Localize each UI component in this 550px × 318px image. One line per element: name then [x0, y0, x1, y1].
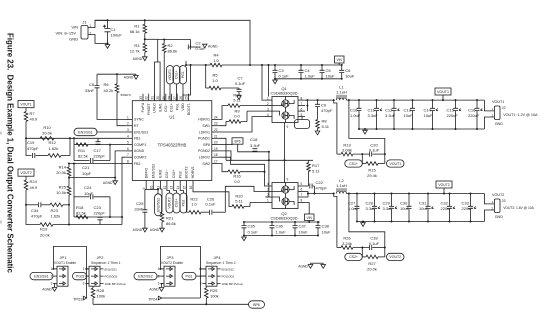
- capacitor C37 10uF: [294, 222, 296, 226]
- svg-text:470pF: 470pF: [316, 186, 328, 191]
- svg-text:VIN: VIN: [307, 216, 313, 220]
- wire gnd to J3 pin2: [484, 210, 494, 222]
- junction C28 bottom: [374, 221, 376, 223]
- wire sense tap left ch2: [334, 194, 337, 248]
- resistor R17 5.11: [307, 163, 311, 172]
- svg-text:0.1uF: 0.1uF: [205, 202, 216, 207]
- junction comp2 node: [109, 216, 111, 218]
- VOUT1 net oval: [387, 160, 405, 167]
- svg-text:5.11: 5.11: [312, 168, 320, 173]
- svg-text:1.0uF: 1.0uF: [348, 206, 359, 211]
- PG2 net oval: [73, 272, 87, 279]
- power block Q2 CSD86330Q3D: [272, 183, 298, 209]
- svg-text:3: 3: [127, 128, 129, 132]
- junction C5 top: [321, 64, 323, 66]
- junction C15 top: [455, 99, 457, 101]
- svg-text:100k BP Pull-up: 100k BP Pull-up: [222, 282, 244, 286]
- junction C32 bottom: [449, 221, 451, 223]
- svg-text:CS2−: CS2−: [165, 169, 169, 178]
- svg-text:4: 4: [267, 182, 269, 186]
- svg-text:VOUT2: VOUT2: [438, 183, 449, 187]
- junction R5 tap: [205, 64, 207, 66]
- U1 pin 23 SW1: [212, 125, 219, 127]
- svg-text:220pF: 220pF: [94, 154, 106, 159]
- junction C29 top: [391, 193, 393, 195]
- AGND end of sync rail: [135, 74, 137, 75]
- Q2 pin 6 stub: [298, 191, 305, 193]
- junction C20 right: [384, 153, 386, 155]
- wire SW1: [219, 122, 229, 126]
- svg-text:5: 5: [301, 113, 303, 117]
- ground VOUT2 caps: [361, 223, 366, 227]
- junction q2 vin: [308, 221, 310, 223]
- VOUT1 net box: [435, 88, 451, 95]
- Q2 pin 2 stub: [266, 196, 273, 198]
- svg-text:R4: R4: [213, 53, 219, 58]
- wire ch2 loop left: [73, 164, 75, 218]
- resistor R7 49.9: [25, 108, 27, 112]
- svg-text:TP23: TP23: [73, 296, 83, 301]
- U1 pin 16 HDRV2: [192, 181, 194, 188]
- wire Q2 pins 6/7 tie: [305, 192, 308, 198]
- svg-text:EN1/SS1: EN1/SS1: [105, 267, 118, 271]
- resistor R22 1.0: [187, 211, 190, 213]
- svg-text:5.11: 5.11: [235, 199, 243, 204]
- wire Q2 pin8 to VIN box: [305, 203, 309, 215]
- svg-text:R21: R21: [166, 216, 174, 221]
- svg-text:PG2: PG2: [182, 199, 186, 206]
- AGND below C25: [143, 228, 148, 232]
- svg-text:C13: C13: [404, 108, 412, 113]
- resistor R4 1.0: [186, 64, 210, 66]
- EN1/SS1 net oval: [74, 128, 97, 136]
- junction Q1 pin7 sw: [306, 105, 308, 107]
- junction R12 top: [69, 137, 71, 139]
- svg-text:1: 1: [267, 199, 269, 203]
- svg-text:C3: C3: [279, 68, 285, 73]
- wire VOUT2 gnd rail: [357, 221, 484, 223]
- svg-text:FB2: FB2: [134, 162, 140, 166]
- wire Q1 pin9 to pgnd rail: [284, 129, 286, 160]
- capacitor C29 3.3uF: [391, 194, 393, 207]
- wire VOUT2 box stub: [443, 188, 445, 194]
- junction C9 tap: [317, 99, 319, 101]
- capacitor C31 10uF: [427, 194, 429, 207]
- svg-text:R5: R5: [212, 73, 218, 78]
- svg-text:JP1: JP1: [60, 255, 68, 260]
- inductor L1 1.1uH: [336, 98, 346, 100]
- capacitor C13 10uF: [412, 100, 414, 108]
- wire Q2 pin5 to snubber: [305, 185, 309, 187]
- svg-text:COMP2: COMP2: [134, 156, 147, 160]
- AGND mid symbol: [310, 263, 312, 264]
- svg-text:100uF: 100uF: [111, 33, 123, 38]
- junction C10 top: [358, 99, 360, 101]
- svg-text:220uF: 220uF: [462, 206, 474, 211]
- svg-text:R2: R2: [168, 43, 174, 48]
- junction C36 top: [271, 221, 273, 223]
- svg-text:ILIM1: ILIM1: [158, 103, 162, 112]
- capacitor C27 1.0uF: [356, 194, 358, 207]
- svg-text:3: 3: [158, 282, 160, 286]
- junction C1 bottom: [107, 42, 109, 44]
- svg-text:470pF: 470pF: [27, 146, 39, 151]
- U1 pin 26 VDD: [182, 94, 184, 101]
- junction Q1 vin tap 2: [268, 64, 270, 66]
- AGND below R3: [143, 57, 148, 61]
- svg-text:68.1k: 68.1k: [130, 29, 140, 34]
- wire VIN box stub: [338, 63, 340, 65]
- svg-text:30: 30: [156, 96, 160, 100]
- VOUT2 feedback net box: [18, 169, 34, 176]
- U1 pin 4 FB1: [125, 137, 132, 139]
- svg-text:10: 10: [149, 186, 153, 190]
- wire VOUT1 box stub: [442, 95, 444, 100]
- svg-text:1.0: 1.0: [191, 202, 197, 207]
- svg-text:1: 1: [158, 267, 160, 271]
- svg-text:5.11: 5.11: [322, 124, 330, 129]
- svg-text:CS1+: CS1+: [349, 162, 358, 166]
- svg-text:C4: C4: [305, 68, 311, 73]
- wire J1 pin2 to GND: [88, 35, 108, 44]
- Q1 pin 2 stub: [266, 105, 273, 107]
- svg-text:BP6: BP6: [234, 140, 240, 144]
- svg-text:33: 33: [139, 96, 143, 100]
- svg-text:CS1+: CS1+: [175, 70, 179, 79]
- svg-text:C21: C21: [82, 165, 90, 170]
- wire gnd to J2 pin2: [484, 117, 494, 129]
- wire PG1 oval to JP4 pin2: [196, 275, 206, 277]
- wire BOOT2 down: [186, 188, 188, 213]
- svg-text:10uF: 10uF: [299, 229, 309, 234]
- capacitor C23 220pF: [98, 217, 103, 219]
- wire R2 top rail: [158, 39, 191, 41]
- svg-text:R29: R29: [210, 288, 218, 293]
- resistor R15 29.4k: [366, 162, 378, 166]
- resistor R2 86.6k: [163, 40, 165, 44]
- wire to VOUT2 oval: [167, 188, 170, 194]
- svg-text:PGND2: PGND2: [198, 149, 210, 153]
- svg-text:5: 5: [301, 182, 303, 186]
- svg-text:3: 3: [51, 282, 53, 286]
- svg-text:C10: C10: [350, 108, 358, 113]
- capacitor C34 470pF: [39, 202, 41, 207]
- svg-text:VIN: VIN: [71, 25, 78, 30]
- wire SW2 rail: [308, 193, 334, 195]
- wire stub R4 left: [185, 61, 187, 65]
- Q1 pin 8 stub: [298, 99, 305, 101]
- wire EN1/SS1 oval to JP1 pin2: [52, 275, 54, 277]
- wire to CS2+ oval: [174, 188, 177, 194]
- svg-text:LDRV1: LDRV1: [199, 130, 210, 134]
- Q1 pin 4 stub: [266, 116, 273, 118]
- Q2 pin 4 stub: [266, 185, 273, 187]
- svg-text:3.24k: 3.24k: [342, 241, 352, 246]
- svg-text:3.09k: 3.09k: [342, 148, 352, 153]
- jumper JP3: [164, 266, 175, 286]
- svg-text:25: 25: [185, 96, 189, 100]
- junction C12 bottom: [393, 128, 395, 130]
- svg-text:J3: J3: [502, 199, 506, 203]
- wire Q1 pins 6/7 tie: [306, 100, 308, 111]
- svg-text:220uF: 220uF: [468, 113, 480, 118]
- PG2 net oval vertical: [180, 193, 187, 213]
- capacitor C38 10uF: [317, 222, 319, 226]
- svg-text:33nF: 33nF: [134, 206, 144, 211]
- svg-text:COMP1: COMP1: [134, 143, 147, 147]
- junction R1 top: [144, 19, 146, 21]
- wire J1 pin1 to VIN rail: [88, 20, 108, 27]
- ground bypass row 1: [273, 80, 278, 84]
- svg-text:AGND: AGND: [124, 75, 134, 79]
- junction C13 top: [412, 99, 414, 101]
- svg-text:0.1uF: 0.1uF: [369, 241, 380, 246]
- svg-text:C28: C28: [366, 201, 374, 206]
- svg-text:C29: C29: [383, 201, 391, 206]
- Q2 pin 1 stub: [266, 202, 273, 204]
- svg-text:Figure 23. Design Example 1,: Figure 23. Design Example 1, Dual Output…: [6, 33, 15, 273]
- junction C3 bottom: [274, 78, 276, 80]
- svg-text:C34: C34: [31, 208, 39, 213]
- svg-text:SYNC: SYNC: [134, 118, 144, 122]
- U1 pin 30 ILIM1: [159, 94, 161, 101]
- svg-text:3.3uF: 3.3uF: [385, 113, 396, 118]
- junction L1 right: [348, 99, 350, 101]
- capacitor C19 470pF: [33, 153, 35, 158]
- ground below C7: [237, 96, 242, 100]
- junction L1 left: [333, 99, 335, 101]
- svg-text:1: 1: [51, 267, 53, 271]
- svg-text:500kHz: 500kHz: [121, 93, 132, 97]
- VOUT2 sense net oval: [387, 253, 405, 260]
- wire to J2 pin1: [484, 100, 494, 111]
- svg-text:1.62k: 1.62k: [49, 146, 59, 151]
- svg-text:C5: C5: [326, 68, 332, 73]
- svg-text:6: 6: [301, 107, 303, 111]
- junction C37 top: [294, 221, 296, 223]
- capacitor C15 220uF: [455, 100, 457, 108]
- svg-text:PG1: PG1: [185, 274, 192, 278]
- svg-text:3.3uF: 3.3uF: [366, 206, 377, 211]
- resistor R30 5.11: [228, 104, 240, 108]
- svg-text:29: 29: [162, 96, 166, 100]
- svg-text:15: 15: [183, 186, 187, 190]
- wire VOUT1 oval to pin: [169, 84, 171, 101]
- junction C3 top: [274, 64, 276, 66]
- resistor R5 1.0: [206, 87, 209, 89]
- svg-text:3.3uF: 3.3uF: [368, 113, 379, 118]
- wire C1 to ground: [107, 43, 109, 44]
- resistor R20 5.11: [232, 205, 244, 209]
- wire comp loop inner: [74, 144, 110, 146]
- VOUT1 feedback net box: [18, 101, 34, 108]
- svg-text:R14: R14: [59, 165, 67, 170]
- U1 pin 9 DIFFO: [145, 181, 147, 188]
- page marker dot 1: [0, 132, 2, 135]
- svg-text:HDRV2: HDRV2: [191, 166, 195, 178]
- svg-text:20.0k: 20.0k: [40, 232, 50, 237]
- Q2 pin 7 stub: [298, 196, 305, 198]
- resistor R16 0.0: [228, 170, 240, 174]
- wire R17 top: [308, 160, 310, 162]
- junction R25 mid tap: [68, 204, 70, 206]
- svg-text:7: 7: [127, 153, 129, 157]
- junction C18 return: [268, 151, 270, 153]
- svg-text:14: 14: [176, 186, 180, 190]
- svg-text:86.6k: 86.6k: [168, 48, 178, 53]
- svg-text:C33: C33: [462, 201, 470, 206]
- svg-text:1.1uH: 1.1uH: [336, 183, 347, 188]
- svg-text:PGOOD1: PGOOD1: [222, 275, 235, 279]
- svg-text:AGND: AGND: [298, 265, 308, 269]
- svg-text:220uF: 220uF: [447, 113, 459, 118]
- U1 pin 25 BOOT1: [188, 94, 190, 101]
- wire to Q2 pin4: [265, 172, 266, 186]
- svg-text:C24: C24: [84, 185, 92, 190]
- svg-text:3.3uF: 3.3uF: [250, 143, 261, 148]
- CS2+ net oval: [345, 253, 363, 260]
- wire loop to JP4 pin1 stub: [200, 268, 206, 270]
- svg-text:220uF: 220uF: [441, 206, 453, 211]
- junction C22 bottom: [313, 193, 315, 195]
- junction C1 top: [107, 19, 109, 21]
- capacitor C35 0.1uF: [243, 222, 245, 226]
- wire SW1 rail from Q1: [305, 99, 334, 101]
- wire FB1 rail: [26, 137, 125, 139]
- wire sense tap right ch2: [349, 194, 385, 257]
- svg-text:VOUT1: VOUT1: [492, 100, 504, 104]
- junction C15 bottom: [455, 128, 457, 130]
- svg-text:EN2/SS2: EN2/SS2: [152, 164, 156, 178]
- wire AGND pin vertical: [115, 151, 125, 178]
- svg-text:C32: C32: [441, 201, 449, 206]
- svg-text:PGND1: PGND1: [198, 137, 210, 141]
- svg-text:R25: R25: [59, 185, 67, 190]
- svg-text:AGND: AGND: [149, 288, 159, 292]
- wire diffo tie: [145, 188, 158, 190]
- wire pin10 stub down: [152, 188, 154, 190]
- capacitor C4 1.0uF: [300, 65, 302, 70]
- svg-text:C15: C15: [447, 108, 455, 113]
- svg-text:1.0uF: 1.0uF: [276, 229, 287, 234]
- svg-text:EN2/SS2: EN2/SS2: [156, 198, 160, 212]
- wire pgnd to Q2 pin2: [266, 152, 269, 197]
- resistor R25 10.0k: [68, 178, 70, 186]
- svg-text:40.2k: 40.2k: [104, 88, 114, 93]
- svg-text:DIFFO: DIFFO: [144, 168, 148, 179]
- svg-text:GND: GND: [69, 37, 78, 42]
- junction VOUT1 label: [442, 99, 444, 101]
- CS1+ net oval: [345, 160, 363, 167]
- svg-text:470pF: 470pF: [31, 214, 43, 219]
- wire VIN rail 2: [244, 221, 320, 223]
- svg-text:470pF: 470pF: [321, 108, 333, 113]
- svg-text:28: 28: [168, 96, 172, 100]
- svg-text:VOUT2: VOUT2: [389, 255, 401, 259]
- svg-text:5.11: 5.11: [233, 98, 241, 103]
- svg-text:1.0: 1.0: [212, 78, 218, 83]
- svg-text:EN2/SS2: EN2/SS2: [222, 267, 235, 271]
- resistor R11 82.5k: [76, 143, 88, 147]
- svg-text:82.5k: 82.5k: [78, 154, 88, 159]
- junction Q1 vin tap: [261, 64, 263, 66]
- svg-text:C22: C22: [316, 180, 324, 185]
- svg-text:R24: R24: [30, 179, 38, 184]
- capacitor C8 33nF: [96, 74, 98, 85]
- empty net oval at Q1 pin5: [295, 120, 310, 129]
- svg-text:Sequence: 1 Then 2: Sequence: 1 Then 2: [206, 261, 236, 265]
- svg-text:C31: C31: [419, 201, 427, 206]
- wire LDRV2: [219, 157, 265, 172]
- wire VIN top rail: [95, 20, 250, 65]
- svg-text:CSD86330Q3D: CSD86330Q3D: [270, 216, 297, 221]
- junction C32 top: [449, 193, 451, 195]
- junction R1/R3 node: [144, 38, 146, 40]
- svg-text:9: 9: [287, 125, 289, 129]
- capacitor C21 10pF: [91, 158, 93, 163]
- capacitor C1 100uF: [107, 20, 109, 43]
- svg-text:LDRV2: LDRV2: [199, 156, 210, 160]
- svg-text:JP4: JP4: [214, 255, 222, 260]
- svg-text:ILIM2: ILIM2: [159, 169, 163, 178]
- svg-text:23: 23: [214, 122, 218, 126]
- junction VOUT2 label: [443, 193, 445, 195]
- junction C10 bottom: [358, 128, 360, 130]
- ground below C1: [105, 45, 110, 49]
- junction C28 top: [374, 193, 376, 195]
- svg-text:R8: R8: [322, 119, 328, 124]
- svg-text:20.0k: 20.0k: [367, 266, 377, 271]
- wire CS1+ drop: [361, 154, 363, 163]
- svg-text:C18: C18: [250, 137, 258, 142]
- svg-text:33nF: 33nF: [85, 88, 95, 93]
- resistor R8 5.11: [316, 120, 320, 129]
- svg-text:29.4k: 29.4k: [367, 173, 377, 178]
- svg-text:PG1: PG1: [181, 71, 185, 78]
- AGND right of C2: [203, 44, 208, 48]
- svg-text:19: 19: [214, 147, 218, 151]
- PG1 top net oval vertical: [180, 66, 187, 85]
- svg-text:R18: R18: [76, 205, 84, 210]
- resistor R3 12.7k: [144, 39, 146, 43]
- AGND below R21: [160, 228, 165, 232]
- svg-text:TP24: TP24: [148, 296, 158, 301]
- svg-text:18: 18: [214, 153, 218, 157]
- svg-text:Sequence: 2 Then 1: Sequence: 2 Then 1: [91, 261, 121, 265]
- jumper JP2: [89, 266, 100, 286]
- svg-text:U1: U1: [169, 115, 175, 120]
- junction C31 top: [427, 193, 429, 195]
- svg-text:31: 31: [150, 96, 154, 100]
- svg-text:VOUT1: VOUT1: [389, 162, 401, 166]
- svg-text:2: 2: [51, 274, 53, 278]
- AGND symbol ch mid: [114, 178, 116, 181]
- junction C38 bottom: [317, 235, 319, 237]
- svg-text:20.0k: 20.0k: [56, 170, 66, 175]
- wire VIN rail to bypass caps: [250, 64, 342, 66]
- svg-text:0.1uF: 0.1uF: [248, 229, 259, 234]
- junction AGND node: [114, 177, 116, 179]
- resistor R23 1.62k: [50, 203, 63, 207]
- svg-text:JP2: JP2: [97, 255, 105, 260]
- wire to R15: [362, 163, 366, 165]
- svg-text:C19: C19: [27, 140, 35, 145]
- svg-text:10uF: 10uF: [400, 206, 410, 211]
- wire to PG2 oval: [180, 188, 183, 194]
- Q1 pin 9 stub: [284, 123, 286, 130]
- svg-text:C11: C11: [368, 108, 376, 113]
- junction EN2/SS2 stub: [157, 188, 159, 190]
